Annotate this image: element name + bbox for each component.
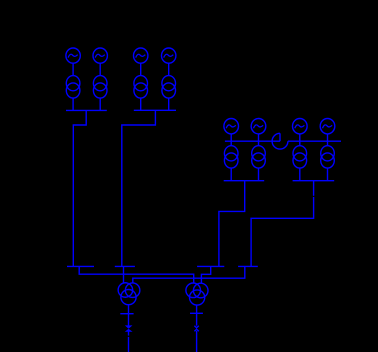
transformer T3 bbox=[134, 76, 148, 99]
crossbar right output bbox=[190, 312, 203, 314]
wire G6 to bus R bbox=[258, 134, 260, 141]
wire H2 (bus B4 to T10 right winding) bbox=[133, 266, 245, 283]
wire T5 to bus A bbox=[230, 168, 232, 181]
wire G8 to bus R bbox=[327, 134, 329, 141]
transformer T5 bbox=[224, 146, 238, 168]
generator G3 bbox=[134, 48, 148, 63]
wire H1 (bus B1 to T9 left winding) bbox=[79, 266, 194, 283]
wire T4 to bus L2 bbox=[168, 98, 170, 110]
generator G4 bbox=[162, 48, 176, 63]
arrow down left output bbox=[126, 326, 131, 328]
wire G7 to bus R bbox=[299, 134, 301, 141]
wire bus R to T6 bbox=[258, 141, 260, 146]
arrow chevron down right output bbox=[194, 326, 198, 328]
three-winding transformer T10 bbox=[118, 283, 140, 305]
wire feeder B upper segment bbox=[313, 181, 315, 196]
transformer T7 bbox=[293, 146, 307, 168]
wire right output to edge bbox=[196, 331, 198, 352]
transformer T1 bbox=[66, 76, 80, 99]
bus B1 bbox=[67, 265, 94, 267]
wire G1 to T1 bbox=[72, 63, 74, 75]
bus A (pair bus) bbox=[224, 180, 265, 182]
bus L1 bbox=[66, 109, 107, 111]
wire feeder B lower segment with jog to bus B4 bbox=[251, 197, 314, 267]
bus R right section bbox=[288, 140, 341, 142]
wire left output to edge bbox=[128, 337, 130, 352]
generator G7 bbox=[293, 119, 308, 134]
arrow up left output bbox=[126, 329, 131, 331]
transformer T2 bbox=[93, 76, 107, 99]
wire bus R to T5 bbox=[230, 141, 232, 146]
bus B (pair bus) bbox=[293, 180, 335, 182]
wire T2 to bus L1 bbox=[99, 98, 101, 110]
wire T10 output bbox=[128, 305, 130, 326]
wire feeder 1 (bus L1 down to bus B1) bbox=[73, 110, 86, 266]
generator G6 bbox=[251, 119, 266, 134]
wire G5 to bus R bbox=[230, 134, 232, 141]
generator G8 bbox=[320, 119, 335, 134]
arrow chevron up right output bbox=[194, 329, 198, 331]
wire T8 to bus B bbox=[327, 168, 329, 181]
bus B2 bbox=[115, 265, 135, 267]
wire G2 to T2 bbox=[99, 63, 101, 75]
wire G4 to T4 bbox=[168, 63, 170, 75]
generator G2 bbox=[93, 48, 107, 63]
wire bus B3 jog to T9 right winding bbox=[201, 266, 210, 283]
three-winding transformer T9 bbox=[186, 283, 208, 305]
wire T3 to bus L2 bbox=[140, 98, 142, 110]
bus R left section bbox=[225, 140, 280, 142]
transformer T4 bbox=[162, 76, 176, 99]
bus L2 bbox=[134, 109, 176, 111]
wire T6 to bus A bbox=[258, 168, 260, 181]
bus B3 bbox=[197, 265, 224, 267]
crossbar left output bbox=[120, 313, 133, 315]
wire feeder A (bus A down to bus B3) bbox=[219, 181, 245, 267]
transformer T6 bbox=[252, 146, 266, 168]
transformer T8 bbox=[321, 146, 335, 168]
wire left output lower segment bbox=[128, 331, 130, 335]
wire T7 to bus B bbox=[299, 168, 301, 181]
reactor L1 bbox=[272, 133, 288, 149]
wire T9 output bbox=[196, 305, 198, 326]
generator G1 bbox=[66, 48, 80, 63]
generator G5 bbox=[224, 119, 239, 134]
bus B4 bbox=[238, 265, 258, 267]
wire bus R to T7 bbox=[299, 141, 301, 146]
wire bus B2 drop to T10 left winding bbox=[123, 266, 125, 283]
wire bus R to T8 bbox=[327, 141, 329, 146]
wire feeder 2 (bus L2 down to bus B2) bbox=[122, 110, 156, 266]
wire G3 to T3 bbox=[140, 63, 142, 75]
wire T1 to bus L1 bbox=[72, 98, 74, 110]
